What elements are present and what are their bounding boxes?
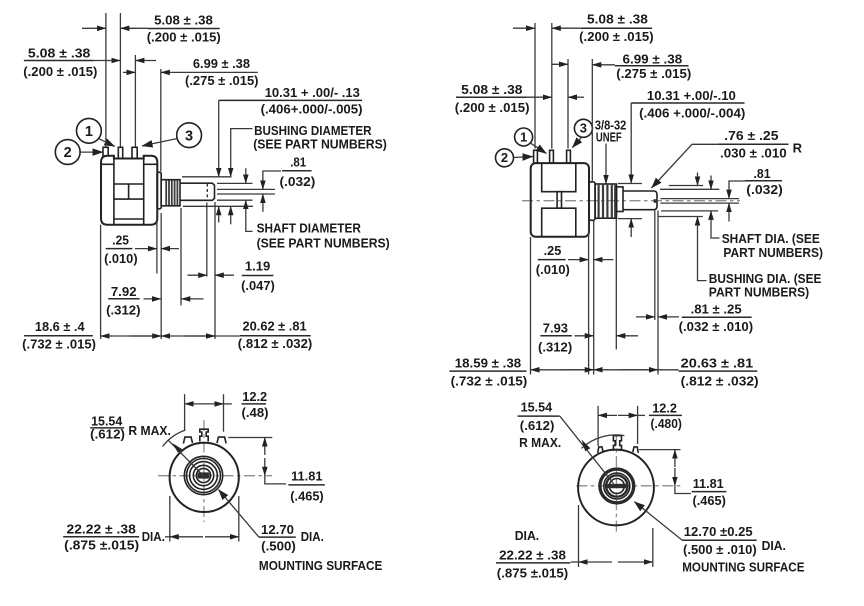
lower extension: body left: [100, 225, 102, 339]
svg-text:3: 3: [185, 128, 193, 144]
lower extension: body left: [530, 237, 532, 375]
dim 5.08 top arrows: [513, 27, 535, 29]
svg-text:6.99 ± .38: 6.99 ± .38: [623, 52, 683, 67]
svg-text:2: 2: [64, 145, 72, 161]
body right cap seam: [144, 163, 158, 165]
extension: shaft dia top: [660, 188, 719, 190]
svg-text:DIA.: DIA.: [515, 528, 540, 543]
svg-text:.81: .81: [290, 154, 306, 169]
dim 12.70 leader: [634, 502, 682, 541]
dim 6.99 arrows: [123, 71, 135, 73]
dim 20.62 line: [161, 335, 240, 337]
shaft dia leader: [711, 211, 720, 238]
lower extension: slot depth: [654, 211, 656, 321]
svg-text:5.08 ± .38: 5.08 ± .38: [28, 46, 91, 61]
svg-text:7.92: 7.92: [111, 284, 137, 299]
horizontal centerline: [576, 485, 682, 487]
balloon 1: [77, 118, 102, 143]
balloon 1: [515, 128, 533, 146]
shaft diameter top arrow: [245, 168, 247, 183]
body right cap line: [143, 156, 145, 225]
dim 5.08 top arrows: [82, 27, 106, 29]
dim .81 leader arrow: [263, 171, 281, 189]
svg-text:(.275 ± .015): (.275 ± .015): [616, 66, 691, 81]
balloon 1 leader: [531, 143, 547, 153]
svg-text:(.010): (.010): [104, 251, 138, 266]
potentiometer body (side view): [101, 156, 157, 225]
dim 10.31 bottom arrow: [218, 206, 220, 222]
svg-text:10.31 +.00/-.10: 10.31 +.00/-.10: [647, 88, 736, 103]
shaft slot depth dashed line: [206, 184, 208, 200]
dim 11.81 line: [674, 450, 676, 467]
extension: bushing top short: [618, 183, 642, 185]
extension: bushing bottom short: [618, 218, 642, 220]
svg-text:(.812 ± .032): (.812 ± .032): [238, 336, 312, 351]
extension: bushing dia top: [669, 185, 703, 187]
lower extension: body right: [156, 210, 158, 274]
svg-text:20.62 ± .81: 20.62 ± .81: [243, 319, 307, 334]
extension line bushing top: [182, 176, 232, 178]
extension: shaft dia bottom: [661, 210, 718, 212]
svg-text:1.19: 1.19: [245, 259, 270, 274]
svg-text:5.08 ± .38: 5.08 ± .38: [587, 12, 648, 27]
balloon 2 leader: [80, 151, 103, 153]
lower extension: shaft tip: [657, 211, 659, 375]
extension line mounting face top: [160, 69, 162, 172]
mounting flange: [589, 182, 595, 221]
extension line terminal3: [134, 55, 136, 147]
extension line terminal2: [119, 13, 121, 147]
R max arc: [582, 435, 625, 448]
balloon 3 leader: [572, 137, 582, 148]
svg-text:18.59 ± .38: 18.59 ± .38: [455, 356, 521, 371]
svg-text:15.54: 15.54: [521, 400, 553, 415]
balloon 1 leader: [99, 139, 115, 147]
svg-text:(.406 +.000/-.004): (.406 +.000/-.004): [639, 105, 745, 120]
svg-text:(.612): (.612): [90, 427, 125, 442]
BOTTOM RIGHT VIEW: [496, 400, 805, 581]
svg-text:(.032 ± .010): (.032 ± .010): [679, 319, 754, 334]
terminal 2: [550, 150, 554, 163]
svg-text:MOUNTING SURFACE: MOUNTING SURFACE: [259, 558, 383, 573]
svg-text:PART NUMBERS): PART NUMBERS): [723, 245, 823, 260]
svg-text:(.010): (.010): [536, 262, 570, 277]
bushing nut thick ring: [600, 469, 634, 503]
balloon 3: [574, 119, 592, 137]
dim 18.6 line: [101, 335, 162, 337]
pot body circle (front view): [170, 443, 239, 512]
svg-text:10.31 + .00/- .13: 10.31 + .00/- .13: [265, 85, 360, 100]
svg-text:R: R: [793, 140, 803, 155]
thread spec leader arrow: [605, 144, 607, 184]
svg-text:3: 3: [580, 121, 587, 136]
dim 12.2 line: [185, 403, 205, 405]
ring r13: [604, 473, 630, 499]
body top notch: [542, 163, 576, 192]
threaded bushing: [161, 180, 180, 206]
svg-text:2: 2: [501, 150, 508, 165]
body middle band: [114, 183, 144, 185]
svg-text:(SEE PART NUMBERS): (SEE PART NUMBERS): [253, 136, 387, 151]
svg-text:20.63 ± .81: 20.63 ± .81: [681, 356, 754, 371]
balloon 2: [496, 149, 514, 167]
dim 12.2 line: [598, 414, 617, 416]
anti-rotation lug: [200, 429, 208, 441]
svg-text:UNEF: UNEF: [596, 130, 622, 145]
right mounting tab: [633, 447, 639, 453]
svg-text:R MAX.: R MAX.: [519, 435, 561, 450]
dim .81 bottom arrow: [728, 203, 730, 221]
bushing ring r19: [184, 456, 222, 494]
shaft slot mark at tip: [654, 199, 658, 203]
dim 5.08 left arrows: [526, 96, 552, 98]
shaft: [623, 191, 657, 210]
body left cap seam: [101, 163, 114, 165]
balloon 2 leader: [514, 157, 534, 158]
svg-text:12.2: 12.2: [652, 400, 677, 415]
lower extension: bushing end: [180, 208, 182, 306]
svg-text:(.732 ± .015): (.732 ± .015): [22, 336, 96, 351]
extension line terminal2: [551, 23, 553, 149]
svg-text:DIA.: DIA.: [301, 529, 324, 544]
svg-text:(.047): (.047): [241, 278, 275, 293]
dim 10.31 leader arrow to bushing top: [218, 100, 220, 176]
extension line terminal1: [105, 13, 107, 147]
svg-text:12.70 ±0.25: 12.70 ±0.25: [684, 524, 753, 539]
shaft diameter leader: [246, 200, 253, 231]
shaft dia top arrow: [710, 176, 712, 190]
svg-text:(.875 ±.015): (.875 ±.015): [497, 565, 568, 580]
extension line bushing bottom: [183, 205, 253, 207]
bushing collar: [617, 187, 624, 212]
terminal 1: [103, 147, 108, 156]
dim .81 leader arrow: [729, 181, 745, 199]
svg-text:(.275 ± .015): (.275 ± .015): [185, 73, 259, 88]
svg-text:R MAX.: R MAX.: [128, 423, 171, 438]
dim 12.70 leader: [219, 490, 259, 538]
extension line terminal1: [534, 23, 536, 149]
svg-text:(.406+.000/-.005): (.406+.000/-.005): [261, 102, 363, 117]
bushing dia leader: [698, 217, 707, 281]
svg-text:(.200 ± .015): (.200 ± .015): [147, 30, 221, 45]
R max leader arrowhead: [173, 443, 183, 453]
svg-text:7.93: 7.93: [543, 321, 568, 336]
extension line shaft bottom: [217, 199, 253, 201]
svg-text:11.81: 11.81: [693, 476, 724, 491]
horizontal centerline: [158, 475, 272, 477]
dim 22.22 line: [571, 561, 579, 563]
svg-text:5.08 ± .38: 5.08 ± .38: [154, 13, 213, 28]
dim 22.22 extension lines: [169, 496, 171, 542]
extension line slot top: [217, 188, 275, 190]
dim 10.31 bottom arrow: [630, 219, 632, 237]
centerline through shaft axis: [522, 200, 740, 202]
terminal 3: [567, 150, 571, 163]
dim 11.81 foot: [675, 486, 691, 494]
svg-text:.81: .81: [754, 166, 771, 181]
balloon 2: [55, 140, 80, 165]
vertical centerline: [203, 420, 205, 522]
dim 7.92 arrows: [144, 298, 162, 300]
dim 7.93 arrows: [575, 335, 594, 337]
svg-text:(SEE PART NUMBERS): (SEE PART NUMBERS): [257, 235, 390, 250]
svg-text:DIA.: DIA.: [762, 538, 786, 553]
svg-text:12.70: 12.70: [261, 522, 294, 537]
svg-text:12.2: 12.2: [242, 389, 267, 404]
dim 11.81 foot: [265, 476, 286, 484]
body left cap line: [113, 156, 115, 225]
dim 18.59 line: [531, 369, 594, 371]
svg-text:(.032): (.032): [746, 182, 783, 197]
dim .76 R leader: [652, 144, 718, 188]
svg-text:(.465): (.465): [290, 488, 323, 503]
potentiometer body (section view): [531, 163, 589, 237]
extension line terminal3: [567, 59, 569, 149]
terminal 1: [534, 150, 538, 163]
terminal 2: [118, 147, 122, 158]
svg-text:22.22 ± .38: 22.22 ± .38: [499, 547, 566, 562]
R max leader: [168, 440, 204, 477]
svg-text:(.465): (.465): [693, 493, 726, 508]
R max leader: [560, 416, 614, 483]
inner circle r7.5: [609, 479, 624, 494]
TOP RIGHT VIEW: [449, 12, 823, 389]
svg-text:(.200 ± .015): (.200 ± .015): [579, 29, 653, 44]
balloon 3: [177, 123, 202, 148]
ring r13.9: [190, 462, 218, 490]
dim 12.2 extension lines: [597, 406, 599, 446]
terminal 3: [132, 147, 137, 158]
dim 1.19 arrows: [188, 274, 208, 276]
dim 11.81 top extension: [228, 437, 272, 439]
dim 10.31 leader arrow: [630, 103, 632, 183]
svg-text:.76 ± .25: .76 ± .25: [724, 128, 778, 143]
extension: bushing dia bottom: [658, 216, 703, 218]
anti-rotation lug: [613, 436, 621, 451]
extension line slot bottom: [217, 193, 275, 195]
svg-text:(.312): (.312): [538, 339, 572, 354]
extension: slot bottom: [660, 202, 739, 204]
dim 22.22 extension lines: [578, 505, 580, 567]
body bottom seam: [114, 218, 144, 220]
bushing ring r17: [187, 459, 221, 493]
dim .81 bottom arrow: [262, 194, 264, 212]
svg-text:SHAFT DIAMETER: SHAFT DIAMETER: [257, 221, 362, 236]
bushing threads: [599, 185, 616, 218]
ring r10.2: [193, 465, 213, 485]
svg-text:PART NUMBERS): PART NUMBERS): [709, 285, 809, 300]
svg-text:1: 1: [520, 129, 527, 144]
shaft: [180, 183, 215, 200]
svg-text:DIA.: DIA.: [142, 529, 165, 544]
R max arc: [163, 430, 186, 447]
svg-text:11.81: 11.81: [291, 468, 322, 483]
shaft ring r10.7: [606, 475, 627, 496]
svg-text:1: 1: [85, 124, 93, 140]
dim 11.81 top extension: [639, 449, 681, 451]
dim 11.81 line: [264, 438, 266, 456]
lower extension: mounting face: [160, 213, 162, 339]
lower extension: bushing end: [615, 219, 617, 350]
svg-text:.25: .25: [544, 243, 562, 258]
svg-text:(.500 ± .010): (.500 ± .010): [683, 542, 757, 557]
dim 5.08 left arrows: [94, 60, 121, 62]
bushing dia top arrow: [697, 173, 699, 186]
svg-text:(.48): (.48): [242, 405, 269, 420]
bushing diameter bottom arrow: [230, 206, 232, 224]
svg-text:(.480): (.480): [651, 416, 682, 431]
svg-text:(.875 ±.015): (.875 ±.015): [64, 538, 139, 553]
balloon 3 leader: [142, 138, 178, 146]
lower extension: slot depth: [206, 203, 208, 277]
shaft slot (end view): [607, 484, 626, 488]
svg-text:.25: .25: [112, 232, 129, 247]
svg-text:(.200 ± .015): (.200 ± .015): [455, 100, 530, 115]
svg-text:(.032): (.032): [280, 174, 316, 189]
svg-text:6.99 ± .38: 6.99 ± .38: [193, 56, 250, 71]
svg-text:5.08 ± .38: 5.08 ± .38: [461, 82, 522, 97]
dim 22.22 line: [165, 536, 170, 538]
left mounting tab: [183, 437, 192, 443]
extension: slot top: [660, 198, 739, 200]
mounting flange: [157, 172, 161, 209]
left mounting tab: [598, 447, 604, 453]
dim .25 arrows: [568, 259, 589, 261]
threaded bushing: [595, 184, 616, 218]
svg-text:.81 ± .25: .81 ± .25: [691, 301, 742, 316]
svg-text:(.732 ± .015): (.732 ± .015): [451, 374, 528, 389]
svg-text:(.312): (.312): [106, 302, 140, 317]
svg-text:(.612): (.612): [520, 418, 555, 433]
svg-text:MOUNTING SURFACE: MOUNTING SURFACE: [682, 560, 805, 575]
body bottom notch: [542, 208, 576, 237]
svg-text:(.200 ± .015): (.200 ± .015): [23, 64, 97, 79]
lower extension: body right: [588, 221, 590, 375]
pot body circle (front view): [578, 450, 654, 526]
right mounting tab: [217, 437, 226, 443]
dim .81 slot depth arrows: [636, 316, 655, 318]
vertical centerline: [615, 435, 617, 532]
TOP LEFT VIEW: [22, 13, 390, 352]
dim 12.2 extension lines: [184, 394, 186, 430]
svg-text:(.812 ± .032): (.812 ± .032): [681, 374, 759, 389]
ring r7.1: [196, 468, 210, 482]
BOTTOM LEFT VIEW: [63, 389, 382, 573]
lower extension: mounting face: [593, 221, 595, 375]
shaft slot (end view): [198, 472, 210, 478]
dim 20.63 line: [594, 369, 679, 371]
svg-text:18.6 ± .4: 18.6 ± .4: [35, 319, 85, 334]
center post: [557, 192, 561, 209]
dim 6.99 arrows: [552, 63, 568, 65]
R max leader arrowhead: [582, 440, 591, 452]
svg-text:22.22 ± .38: 22.22 ± .38: [67, 522, 136, 537]
lower extension: shaft tip: [214, 202, 216, 339]
bushing threads: [166, 181, 177, 206]
bushing diameter leader: [231, 129, 253, 177]
extension line mounting face top: [591, 59, 593, 181]
dim .25 arrows: [135, 248, 157, 250]
svg-text:(.500): (.500): [261, 538, 296, 553]
extension line shaft top: [217, 182, 253, 184]
svg-text:.030 ± .010: .030 ± .010: [720, 146, 787, 161]
